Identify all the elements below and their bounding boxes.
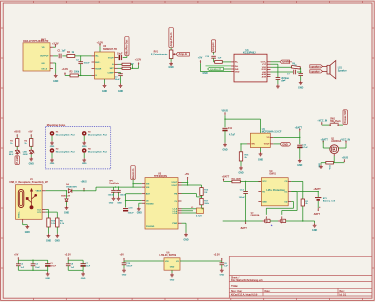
ground (R14) bbox=[317, 163, 323, 169]
capacitor C7b bbox=[81, 260, 91, 270]
svg-text:VIN: VIN bbox=[146, 187, 150, 189]
svg-text:VCC: VCC bbox=[262, 181, 267, 183]
power +3.3V (U2 loop) bbox=[131, 58, 141, 69]
resistor R5 bbox=[214, 61, 231, 64]
svg-text:+BUS: +BUS bbox=[14, 130, 21, 133]
svg-text:KiCad E.D.A. kicad 6.0.9: KiCad E.D.A. kicad 6.0.9 bbox=[231, 293, 258, 296]
svg-text:4.7uF: 4.7uF bbox=[302, 146, 308, 149]
svg-text:TS/GND: TS/GND bbox=[146, 204, 154, 206]
capacitor C18 bbox=[123, 207, 134, 214]
svg-text:VOUT: VOUT bbox=[108, 57, 115, 59]
power +5V (cap group A) bbox=[14, 253, 19, 260]
svg-text:+BUS: +BUS bbox=[81, 182, 88, 184]
ground (U4) bbox=[258, 148, 263, 162]
ground (R16) bbox=[238, 166, 243, 175]
capacitor C2 bbox=[76, 55, 90, 76]
svg-text:GND: GND bbox=[222, 150, 227, 152]
svg-text:GND: GND bbox=[82, 146, 87, 148]
svg-text:COMP: COMP bbox=[107, 72, 114, 74]
svg-text:OD: OD bbox=[284, 201, 288, 203]
global label Amp-In bbox=[176, 52, 189, 56]
wire U4 VO to +BATT rail bbox=[273, 137, 300, 138]
svg-text:Power-SW: Power-SW bbox=[343, 110, 347, 123]
svg-text:100nF: 100nF bbox=[126, 266, 133, 268]
power +VCC_IN (Q1 drain) bbox=[340, 139, 350, 148]
ground (C16) bbox=[109, 196, 116, 204]
svg-text:100nF: 100nF bbox=[120, 195, 127, 197]
wire bottom rail bbox=[223, 220, 315, 222]
wire U1 out row 5 bbox=[271, 71, 294, 73]
svg-text:AON: AON bbox=[262, 75, 267, 78]
svg-text:GND: GND bbox=[109, 202, 114, 204]
power +3.3V (mic) bbox=[52, 43, 59, 48]
svg-text:+5V: +5V bbox=[14, 253, 19, 256]
svg-text:GND: GND bbox=[53, 81, 58, 83]
svg-text:Amp-In: Amp-In bbox=[179, 53, 188, 56]
svg-text:OUTPUT: OUTPUT bbox=[40, 56, 49, 58]
svg-text:GND: GND bbox=[46, 240, 51, 242]
wire U3 CE loop bbox=[125, 194, 142, 208]
capacitor C1a 470uF bbox=[45, 260, 57, 270]
capacitor C1 bbox=[58, 51, 67, 59]
ground (C9) bbox=[276, 78, 290, 88]
svg-text:MountingHole_Pad: MountingHole_Pad bbox=[56, 133, 76, 136]
svg-text:LiPo. Protection: LiPo. Protection bbox=[267, 189, 286, 192]
svg-text:+3.3V: +3.3V bbox=[65, 253, 72, 256]
no-connect flag GND (oval) bbox=[273, 142, 290, 146]
wire VBUS bbox=[46, 190, 67, 192]
transistor Q2 FS8205A bbox=[251, 212, 286, 226]
capacitor C10 bbox=[205, 56, 222, 62]
mounting hole H3 bbox=[82, 131, 108, 148]
svg-text:PG/GND: PG/GND bbox=[146, 226, 155, 228]
battery BT1 bbox=[315, 198, 335, 208]
svg-text:GN: GN bbox=[41, 63, 45, 65]
frame right ticks bbox=[372, 28, 374, 268]
LED D2 bbox=[23, 149, 35, 156]
svg-text:TD: TD bbox=[262, 191, 265, 193]
power VBUS bbox=[222, 111, 229, 116]
wire switch left bbox=[322, 124, 330, 126]
global label Mic-Pre-Out (vertical) bbox=[125, 37, 129, 58]
diode D5 B5819W bbox=[61, 190, 70, 206]
wire U5 right to battery bbox=[291, 191, 319, 192]
svg-text:Date:: Date: bbox=[265, 290, 271, 293]
svg-text:10uF: 10uF bbox=[85, 265, 90, 267]
svg-text:GND: GND bbox=[25, 232, 30, 234]
svg-text:speaker-: speaker- bbox=[311, 71, 321, 74]
wire R3 to U2 bbox=[78, 74, 91, 76]
capacitor C19 bbox=[122, 261, 133, 268]
svg-text:Sheet: /: Sheet: / bbox=[231, 276, 240, 279]
ground (U6) bbox=[170, 270, 175, 281]
svg-text:LS1: LS1 bbox=[338, 67, 343, 69]
frame top ticks bbox=[33, 1, 362, 3]
resistor R6a bbox=[118, 63, 131, 65]
svg-text:+VCC_IN: +VCC_IN bbox=[340, 139, 350, 141]
svg-text:+BATT: +BATT bbox=[313, 188, 321, 191]
global label speaker+ (red) bbox=[271, 60, 293, 64]
svg-text:GND: GND bbox=[82, 163, 87, 165]
svg-text:MountingHole_Pad: MountingHole_Pad bbox=[88, 133, 108, 136]
svg-text:+3.3V: +3.3V bbox=[135, 58, 142, 61]
svg-text:Amp-In: Amp-In bbox=[211, 42, 215, 51]
svg-text:MountingHole_Pad: MountingHole_Pad bbox=[88, 150, 108, 153]
capacitor C8b bbox=[66, 260, 75, 270]
svg-text:GND: GND bbox=[169, 67, 174, 69]
power +5V (U3 out) bbox=[182, 173, 190, 185]
svg-text:TotalPads: TotalPads bbox=[109, 182, 120, 185]
power +5V (LED2) bbox=[28, 130, 33, 138]
power +3.3V (U2) bbox=[97, 42, 104, 52]
svg-text:-BATT: -BATT bbox=[313, 213, 320, 216]
svg-text:GND: GND bbox=[219, 275, 224, 277]
ground (D5) bbox=[64, 206, 69, 215]
svg-text:GND: GND bbox=[137, 213, 142, 215]
resistor R2 1k bbox=[24, 139, 33, 151]
svg-text:Title:: Title: bbox=[231, 284, 238, 288]
resistor R1 1k bbox=[10, 139, 19, 151]
svg-text:VD: VD bbox=[42, 47, 45, 49]
title block bbox=[229, 256, 372, 298]
wire VBUS to U4 bbox=[225, 119, 261, 133]
wire U5 CS to R16b bbox=[291, 181, 303, 199]
capacitor C17 bbox=[116, 186, 126, 196]
ground (R10) bbox=[46, 234, 51, 243]
resistor R10 5.1k bbox=[47, 218, 56, 234]
ground (U3 PGND) bbox=[182, 223, 189, 241]
resistor R7a bbox=[118, 64, 133, 69]
svg-text:100nF: 100nF bbox=[84, 63, 91, 65]
global label speaker+ (speaker) bbox=[310, 65, 327, 69]
svg-text:VBUS: VBUS bbox=[222, 111, 229, 113]
wire CC1 bbox=[46, 210, 49, 219]
resistor R17 bbox=[200, 195, 210, 208]
switch SW1 SW_Push bbox=[330, 119, 342, 126]
capacitor C13 bbox=[297, 145, 308, 159]
global label 5V-Boost (vertical, above U3) bbox=[131, 166, 135, 188]
svg-text:GND: GND bbox=[50, 163, 55, 165]
wire R4 to U2 bbox=[75, 55, 92, 57]
capacitor C4 10uF bbox=[117, 54, 127, 60]
svg-text:C11: C11 bbox=[228, 128, 233, 130]
svg-text:GND: GND bbox=[238, 173, 243, 175]
svg-text:Battery_Cell: Battery_Cell bbox=[323, 200, 336, 203]
wire switch right bbox=[339, 124, 343, 126]
speaker LS1 bbox=[327, 61, 347, 79]
wire U1 out row 3 bbox=[271, 66, 292, 68]
capacitor C3 bbox=[115, 73, 123, 84]
svg-text:GND: GND bbox=[170, 279, 175, 281]
charger U3 TP5400 bbox=[142, 173, 182, 230]
svg-text:VO: VO bbox=[176, 261, 179, 263]
svg-text:P-LED: P-LED bbox=[15, 156, 19, 164]
global label speaker- (speaker) bbox=[310, 70, 327, 74]
ground (C13) bbox=[297, 159, 302, 167]
suppressor SP1 bbox=[109, 181, 120, 185]
capacitor C4a bbox=[31, 260, 41, 270]
wire U5 OD down bbox=[266, 202, 293, 215]
svg-text:VIN: VIN bbox=[146, 184, 150, 186]
svg-text:1uF: 1uF bbox=[62, 51, 67, 53]
ground (J1 shell) bbox=[23, 223, 30, 234]
svg-text:+5V: +5V bbox=[120, 253, 125, 256]
ground (U2) bbox=[102, 79, 107, 93]
frame left ticks bbox=[1, 28, 4, 268]
ground (C3) bbox=[118, 84, 123, 93]
wire pale (bus) bbox=[206, 65, 232, 67]
svg-text:GND: GND bbox=[170, 266, 175, 268]
svg-text:470uF: 470uF bbox=[50, 264, 57, 267]
resistor R14 bbox=[321, 162, 334, 171]
svg-text:1M: 1M bbox=[204, 192, 207, 194]
wire U3 PB bbox=[182, 194, 203, 198]
resistor R9 5.1k bbox=[56, 218, 65, 234]
svg-text:Boost-In: Boost-In bbox=[131, 168, 135, 179]
svg-text:GND: GND bbox=[29, 163, 34, 165]
capacitor C11 bbox=[222, 128, 235, 143]
svg-text:+VCC_IN: +VCC_IN bbox=[317, 120, 327, 122]
svg-text:L1.B: L1.B bbox=[173, 213, 178, 215]
svg-text:PWR: PWR bbox=[172, 223, 177, 225]
power +VCC_IN (switch) bbox=[317, 120, 327, 125]
capacitor C7 (series) bbox=[287, 70, 301, 76]
wire U3 VOUT2 bbox=[182, 184, 202, 185]
svg-text:VOUT: VOUT bbox=[171, 185, 178, 187]
power +BATT (C13) bbox=[295, 126, 303, 144]
capacitor C6 bbox=[220, 261, 229, 268]
svg-text:MountingHole_Pad: MountingHole_Pad bbox=[56, 150, 76, 153]
svg-text:GND: GND bbox=[262, 201, 267, 203]
USB connector J1 bbox=[9, 178, 48, 223]
wire to C9 bbox=[271, 64, 278, 77]
svg-text:VO: VO bbox=[266, 137, 269, 139]
mounting holes box bbox=[46, 124, 111, 169]
svg-text:Size: User: Size: User bbox=[231, 291, 242, 293]
resistor R15 bbox=[200, 185, 209, 195]
mounting hole H1 bbox=[50, 131, 76, 148]
svg-text:BAT: BAT bbox=[146, 193, 151, 196]
svg-text:Speaker: Speaker bbox=[338, 70, 347, 72]
wire U6 right bbox=[180, 260, 222, 262]
power +BATT (U5) bbox=[222, 176, 230, 182]
svg-text:SSM2167-TR: SSM2167-TR bbox=[103, 49, 117, 51]
resistor R16 2k bbox=[239, 144, 249, 166]
svg-text:GND: GND bbox=[183, 239, 188, 241]
svg-text:GND: GND bbox=[297, 165, 302, 167]
svg-text:Mounting holes: Mounting holes bbox=[47, 124, 66, 127]
svg-text:+3.3V: +3.3V bbox=[214, 253, 221, 256]
power +5V (amp) bbox=[198, 56, 203, 63]
svg-text:Rev:: Rev: bbox=[340, 291, 345, 293]
regulator U4 MCP1694A-3.3 bbox=[247, 128, 282, 148]
wire mic output bbox=[53, 55, 58, 57]
power +BUS (LED1) bbox=[14, 130, 21, 138]
svg-text:VOUT: VOUT bbox=[264, 144, 271, 146]
svg-text:GND: GND bbox=[64, 212, 69, 214]
ground (U3 TS) bbox=[137, 203, 142, 214]
svg-text:BUF-: BUF- bbox=[95, 62, 100, 64]
regulator U6 L78L33 bbox=[160, 253, 181, 271]
svg-text:+5V: +5V bbox=[185, 173, 190, 176]
mounting hole H4 bbox=[82, 148, 108, 165]
transistor Q1 AO3401A bbox=[323, 139, 346, 157]
svg-text:VYP: VYP bbox=[262, 64, 267, 66]
wire U6 left bbox=[124, 260, 164, 262]
power -BATT (rail) bbox=[240, 220, 247, 230]
svg-text:File: MatheUhrSchaltung.sch: File: MatheUhrSchaltung.sch bbox=[231, 279, 263, 282]
svg-text:GND: GND bbox=[50, 146, 55, 148]
svg-text:B5819-W: B5819-W bbox=[61, 196, 70, 198]
wire U4 VIN bbox=[240, 143, 247, 144]
svg-text:GND: GND bbox=[81, 278, 86, 280]
svg-text:USB_C_Receptacle_PowerOnly_2P: USB_C_Receptacle_PowerOnly_2P bbox=[9, 181, 48, 184]
svg-text:PB: PB bbox=[174, 193, 177, 195]
op-amp U1 KCS3P66J bbox=[231, 49, 271, 82]
wire U3 VIN1 bbox=[132, 183, 141, 184]
microphone MK1 bbox=[23, 39, 53, 71]
svg-text:FS8205A: FS8205A bbox=[251, 214, 260, 217]
wire U5 OC down bbox=[282, 192, 297, 215]
wire U3 VIN2 (main rail) bbox=[114, 186, 142, 187]
svg-text:4.7uH: 4.7uH bbox=[196, 215, 202, 218]
ground (RV1) bbox=[169, 59, 174, 70]
ground (group B) bbox=[81, 270, 86, 280]
global label Amp-Signal (vertical, above C10) bbox=[211, 40, 216, 55]
svg-text:+BATT: +BATT bbox=[321, 138, 329, 141]
ground (rail) bbox=[312, 221, 317, 232]
diode D4 1N5819WS bbox=[66, 183, 85, 193]
ground (C6) bbox=[219, 268, 224, 276]
wire VBUS to SP1 bbox=[84, 187, 114, 191]
svg-text:4.7uF: 4.7uF bbox=[229, 133, 236, 136]
svg-text:+5V: +5V bbox=[198, 56, 203, 59]
capacitor C9 bbox=[276, 78, 286, 85]
svg-text:GND: GND bbox=[45, 278, 50, 280]
resistor R3 bbox=[70, 72, 80, 77]
ground (LED2) bbox=[29, 155, 34, 166]
svg-text:1N5819WS: 1N5819WS bbox=[66, 187, 77, 189]
svg-text:100uF: 100uF bbox=[128, 213, 135, 215]
svg-text:VIN: VIN bbox=[251, 144, 255, 146]
svg-text:GRN: GRN bbox=[23, 154, 28, 156]
LED D1 bbox=[9, 149, 20, 156]
resistor R18 2k bbox=[301, 199, 309, 222]
svg-text:+3.3V: +3.3V bbox=[62, 68, 69, 71]
power +BATT (Q1) bbox=[321, 138, 329, 148]
svg-text:GND: GND bbox=[118, 91, 123, 93]
svg-text:100nF: 100nF bbox=[108, 195, 115, 197]
svg-text:100nF: 100nF bbox=[239, 197, 246, 199]
wire cap group A rails bbox=[18, 260, 47, 271]
global label speaker-R bbox=[208, 67, 231, 71]
wire cap group B rails bbox=[68, 260, 83, 270]
svg-text:GND: GND bbox=[282, 143, 288, 146]
svg-text:GND: GND bbox=[235, 71, 240, 73]
capacitor C8 bbox=[282, 74, 303, 82]
svg-text:GND: GND bbox=[117, 202, 122, 204]
ground (mic) bbox=[53, 63, 59, 83]
svg-text:SHELL: SHELL bbox=[19, 210, 21, 218]
svg-text:GN_A: GN_A bbox=[41, 67, 47, 70]
svg-text:10uF: 10uF bbox=[35, 267, 40, 269]
ground (C19) bbox=[122, 268, 127, 276]
protection IC U5 DW01 bbox=[258, 171, 291, 206]
svg-text:VIN: VIN bbox=[165, 261, 169, 263]
svg-text:speaker-R: speaker-R bbox=[210, 68, 221, 71]
svg-text:+BATT: +BATT bbox=[295, 126, 303, 129]
wire Q1 gate bbox=[333, 156, 335, 163]
svg-text:GND: GND bbox=[55, 240, 60, 242]
svg-text:GND: GND bbox=[203, 73, 208, 75]
svg-text:Amp-Pre-In: Amp-Pre-In bbox=[169, 32, 173, 46]
svg-text:GND: GND bbox=[317, 163, 319, 168]
power +BUS (Q1 gate net) bbox=[334, 158, 348, 163]
global label Power-SW (vertical) bbox=[343, 110, 347, 125]
power +3.3V (cap group B) bbox=[65, 253, 72, 260]
svg-text:100k: 100k bbox=[74, 72, 80, 74]
svg-text:speaker+: speaker+ bbox=[311, 66, 322, 69]
power -BATT (battery) bbox=[313, 208, 320, 216]
ground (C8) bbox=[298, 81, 303, 90]
mounting hole H2 bbox=[50, 148, 76, 165]
power +5V (U6 group) bbox=[120, 253, 125, 261]
svg-text:DW01: DW01 bbox=[270, 173, 277, 175]
ground (R9) bbox=[55, 234, 60, 243]
resistor R4 bbox=[67, 51, 75, 57]
wire VBUS down bbox=[224, 115, 225, 127]
svg-text:L78L33_SOT89: L78L33_SOT89 bbox=[160, 255, 177, 257]
svg-text:+5V: +5V bbox=[28, 130, 33, 133]
svg-text:speaker+: speaker+ bbox=[282, 62, 293, 64]
svg-text:GND: GND bbox=[298, 88, 303, 90]
svg-text:BLU: BLU bbox=[9, 154, 14, 156]
svg-text:VBUS: VBUS bbox=[36, 191, 42, 193]
wire +5V down bbox=[200, 63, 231, 75]
svg-text:R_Potentiometer: R_Potentiometer bbox=[151, 53, 168, 56]
global label Power-LED (vertical) bbox=[15, 156, 19, 165]
svg-text:+BATT: +BATT bbox=[222, 176, 230, 179]
global label Mic-In (vertical, above RV1) bbox=[169, 28, 173, 51]
ground (C17) bbox=[117, 196, 123, 204]
svg-text:GND: GND bbox=[312, 230, 317, 232]
inductor L1 bbox=[182, 207, 204, 217]
ground (group A) bbox=[45, 270, 50, 280]
power +BUS (VBUS net) bbox=[81, 182, 88, 191]
svg-text:RV1: RV1 bbox=[154, 51, 159, 53]
svg-text:Id: 1/1: Id: 1/1 bbox=[340, 294, 347, 296]
capacitor C16 bbox=[108, 187, 116, 197]
svg-text:50uF: 50uF bbox=[115, 79, 121, 81]
power +3.3V (bias) bbox=[62, 68, 71, 75]
wire R11 to U5 bbox=[240, 181, 261, 182]
frame bottom ticks bbox=[33, 298, 362, 300]
ground (C11) bbox=[222, 143, 227, 152]
svg-text:+BUS: +BUS bbox=[342, 158, 349, 160]
resistor R6 bbox=[291, 63, 300, 73]
svg-text:GND: GND bbox=[122, 275, 127, 277]
capacitor C2a bbox=[16, 260, 25, 270]
wire CC2 bbox=[46, 212, 58, 218]
power +3.3V (U6 out) bbox=[214, 253, 223, 261]
svg-text:-BATT: -BATT bbox=[240, 227, 247, 230]
op-amp U2 SSM2167 bbox=[92, 45, 118, 79]
svg-text:SOAR: SOAR bbox=[95, 67, 102, 70]
power +BATT (battery) bbox=[313, 188, 321, 197]
capacitor C14 bbox=[239, 181, 248, 221]
svg-text:Mic-Pre-Out: Mic-Pre-Out bbox=[125, 40, 129, 55]
svg-text:GND: GND bbox=[258, 159, 263, 161]
